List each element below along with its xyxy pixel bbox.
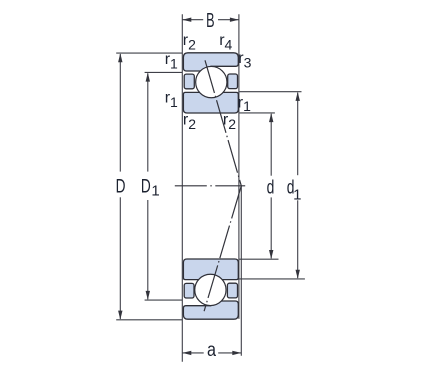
outer ring top — [183, 53, 238, 71]
inner ring bottom — [183, 259, 238, 280]
wire a extension line — [240, 186, 242, 356]
dimension d — [240, 113, 279, 259]
bottom bearing section (180deg rotation of top) — [183, 259, 238, 319]
svg-text:B: B — [206, 9, 214, 32]
ball bottom — [195, 274, 226, 305]
dimension B — [182, 18, 239, 22]
dimension D1 — [145, 72, 183, 300]
contact angle line top — [205, 60, 241, 186]
wire right face line — [238, 14, 240, 319]
dimension a — [182, 351, 241, 355]
svg-text:1: 1 — [151, 183, 159, 200]
inner ring top — [183, 92, 238, 113]
outer ring bottom — [183, 301, 238, 319]
svg-text:D: D — [141, 175, 151, 197]
outer ring shoulder block right — [228, 74, 238, 89]
svg-text:r1: r1 — [238, 95, 251, 115]
inner ring shoulder block left — [184, 74, 194, 89]
ball top — [196, 66, 227, 97]
dimension d1 — [240, 92, 305, 279]
shoulder block bottom right — [227, 283, 237, 298]
svg-text:d: d — [267, 176, 275, 198]
top bearing section — [183, 53, 238, 113]
svg-text:D: D — [116, 175, 126, 197]
node axis centerline — [175, 185, 245, 187]
contact angle line bottom — [204, 186, 241, 311]
svg-text:a: a — [207, 339, 216, 361]
shoulder block bottom left — [184, 283, 194, 298]
svg-text:1: 1 — [293, 186, 301, 203]
dimension D — [116, 53, 182, 320]
wire left face line — [181, 14, 183, 362]
